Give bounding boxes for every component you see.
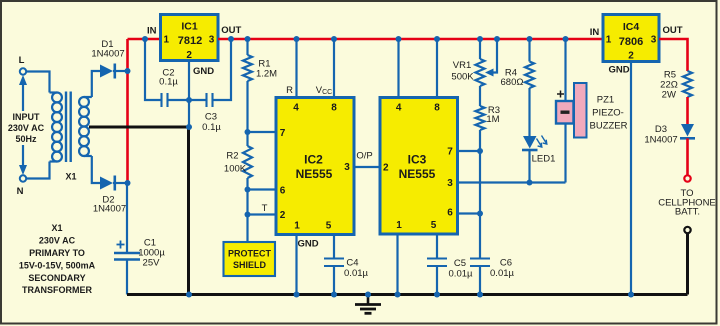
svg-text:IN: IN xyxy=(590,27,600,38)
svg-text:O/P: O/P xyxy=(356,151,372,162)
junction dot pin4 xyxy=(294,36,300,42)
junction dot VR1 on rail xyxy=(477,36,483,42)
svg-text:1.2M: 1.2M xyxy=(256,69,277,80)
wire (red): rectified +V vertical rail D1/D2 junction xyxy=(126,39,129,183)
capacitor C1 (electrolytic) xyxy=(114,253,140,295)
wire: rail to IC2 pin 4 xyxy=(295,39,297,98)
junction dot C5 on bus xyxy=(434,292,440,298)
svg-text:8: 8 xyxy=(331,103,337,114)
svg-text:X1: X1 xyxy=(65,172,76,182)
piezo buzzer PZ1 xyxy=(556,39,587,183)
capacitor C3 0.1u xyxy=(189,39,231,107)
wire (red): IC4 OUT to R5 xyxy=(659,39,688,71)
resistor R4 680ohm xyxy=(525,39,534,136)
junction dot IC4 GND on bus xyxy=(628,292,634,298)
svg-text:NE555: NE555 xyxy=(296,167,333,181)
junction dot C6 on bus xyxy=(477,292,483,298)
junction dot R1 on rail xyxy=(245,36,251,42)
svg-text:X1: X1 xyxy=(51,223,62,233)
capacitor C5 0.01u on IC3 pin5 xyxy=(427,234,447,295)
wire: IC1 pin2 GND down to centre-tap node xyxy=(188,61,190,128)
svg-text:500K: 500K xyxy=(451,72,474,83)
resistor R3 1M xyxy=(476,106,485,151)
label R4 680ohm xyxy=(501,68,524,89)
buzzer plus sign xyxy=(557,91,564,98)
svg-text:IC1: IC1 xyxy=(181,21,198,33)
junction dot at D2 cathode xyxy=(125,180,131,186)
junction dot wiper on rail xyxy=(494,36,500,42)
label VR1 500K xyxy=(451,60,474,83)
potentiometer VR1 500K xyxy=(476,39,485,106)
svg-text:25V: 25V xyxy=(143,258,161,269)
svg-text:7812: 7812 xyxy=(178,35,202,47)
wire: D2 junction down to C1 xyxy=(126,183,128,253)
svg-text:PIEZO-: PIEZO- xyxy=(592,108,624,119)
ground bus (black) xyxy=(127,293,688,296)
protect shield box xyxy=(224,242,276,276)
svg-text:PZ1: PZ1 xyxy=(597,95,614,106)
svg-text:7: 7 xyxy=(447,147,453,158)
black return wire: vertical to bus xyxy=(187,127,190,295)
label R5 22ohm 2W xyxy=(660,70,678,101)
wire (red): R5 to D3 xyxy=(686,97,689,124)
transformer X1 primary winding xyxy=(50,92,62,161)
svg-text:7806: 7806 xyxy=(619,36,643,48)
wire: IC3 pin7 to R3 bottom xyxy=(458,150,481,152)
svg-text:OUT: OUT xyxy=(662,25,682,36)
diode D2 xyxy=(100,176,128,191)
svg-text:PRIMARY TO: PRIMARY TO xyxy=(29,248,85,258)
label C5 0.01u xyxy=(449,258,473,280)
VR1 wiper arm from rail xyxy=(485,39,497,77)
svg-text:GND: GND xyxy=(297,239,318,250)
label D2 1N4007 xyxy=(93,195,126,215)
svg-text:2: 2 xyxy=(628,51,634,62)
svg-text:4: 4 xyxy=(396,103,402,114)
junction dot R1/R2/pin7 xyxy=(245,129,251,135)
output terminal - (black open circle) xyxy=(684,227,690,233)
svg-text:1N4007: 1N4007 xyxy=(644,135,677,146)
wire (black): return from terminal to bus xyxy=(686,234,689,295)
junction dot C2/C3/GND xyxy=(186,97,192,103)
svg-text:3: 3 xyxy=(651,34,657,45)
svg-text:IN: IN xyxy=(147,26,157,37)
svg-text:N: N xyxy=(17,186,24,197)
transformer X1 core xyxy=(66,92,71,163)
svg-text:D3: D3 xyxy=(655,124,667,135)
svg-text:C5: C5 xyxy=(454,258,466,269)
resistor R5 22ohm 2W xyxy=(683,71,692,97)
capacitor C4 0.01u on IC2 pin5 xyxy=(324,235,344,295)
svg-text:15V-0-15V, 500mA: 15V-0-15V, 500mA xyxy=(19,261,96,271)
svg-text:BATT.: BATT. xyxy=(675,207,700,218)
junction dot R4 on rail xyxy=(527,36,533,42)
svg-text:5: 5 xyxy=(431,220,437,231)
svg-text:1: 1 xyxy=(164,34,170,45)
svg-text:GND: GND xyxy=(193,66,214,77)
svg-text:SECONDARY: SECONDARY xyxy=(28,273,85,283)
svg-text:T: T xyxy=(262,203,268,214)
svg-text:GND: GND xyxy=(608,65,629,76)
svg-text:1N4007: 1N4007 xyxy=(93,204,126,215)
IC1 7812 regulator xyxy=(161,15,219,62)
junction dot C4 on bus xyxy=(331,292,337,298)
label D3 1N4007 xyxy=(644,124,677,146)
junction dot IC3 pin4 xyxy=(396,36,402,42)
diode D1 xyxy=(100,64,128,79)
svg-text:230V AC: 230V AC xyxy=(39,236,76,246)
svg-text:5: 5 xyxy=(326,221,332,232)
svg-text:2: 2 xyxy=(280,210,286,221)
svg-text:VR1: VR1 xyxy=(453,60,471,71)
terminal N (open circle) xyxy=(20,175,26,181)
svg-text:IC2: IC2 xyxy=(304,153,323,167)
diode D3 xyxy=(680,124,695,138)
svg-text:1: 1 xyxy=(396,220,402,231)
label C2 0.1u xyxy=(159,68,178,88)
svg-text:1M: 1M xyxy=(486,114,499,125)
label TO CELLPHONE BATT. xyxy=(658,188,716,218)
svg-text:INPUT: INPUT xyxy=(13,112,41,122)
C1 plus sign xyxy=(117,241,125,249)
wire: rail to IC3 pin 8 xyxy=(436,39,438,98)
wire: rail to IC3 pin 4 xyxy=(397,39,399,98)
svg-text:PROTECT: PROTECT xyxy=(228,249,272,259)
resistor R1 1.2M xyxy=(243,39,252,132)
svg-text:4: 4 xyxy=(293,103,299,114)
svg-text:3: 3 xyxy=(344,162,350,173)
junction dot at centre-tap corner xyxy=(186,124,192,130)
svg-text:0.01µ: 0.01µ xyxy=(490,268,514,279)
wire: to IC2 pin 7 xyxy=(248,131,277,133)
junction dot pin7 node xyxy=(477,148,483,154)
svg-text:IC4: IC4 xyxy=(623,21,640,33)
label R3 1M xyxy=(486,105,500,125)
junction dot black vertical on bus xyxy=(186,292,192,298)
resistor R2 100K xyxy=(243,132,252,244)
svg-text:3: 3 xyxy=(209,34,215,45)
wire: IC3 pin6 to node xyxy=(458,212,481,214)
svg-text:2W: 2W xyxy=(662,90,676,101)
IC3 NE555 xyxy=(380,98,458,235)
junction dot pin6 tap xyxy=(245,187,251,193)
junction dot C3 tap on rail xyxy=(228,36,234,42)
wire: L terminal lead to transformer primary top xyxy=(26,72,50,93)
svg-text:6: 6 xyxy=(447,208,453,219)
svg-text:SHIELD: SHIELD xyxy=(233,260,267,270)
wire: secondary bottom to D2 anode xyxy=(92,156,100,183)
wire: secondary top to D1 anode xyxy=(92,71,100,97)
transformer X1 secondary winding xyxy=(79,97,92,156)
LED1 xyxy=(522,136,538,183)
label C4 0.01u xyxy=(344,258,368,280)
terminal L (open circle) xyxy=(20,68,26,74)
junction dot LED on pin3 net xyxy=(527,180,533,186)
label C3 0.1u xyxy=(202,112,221,134)
svg-text:0.01µ: 0.01µ xyxy=(449,269,473,280)
svg-text:6: 6 xyxy=(280,186,286,197)
label PZ1 PIEZO-BUZZER xyxy=(590,95,628,132)
svg-text:100K: 100K xyxy=(224,164,247,175)
svg-text:2: 2 xyxy=(383,163,389,174)
svg-text:0.1µ: 0.1µ xyxy=(159,77,178,88)
label D1 1N4007 xyxy=(91,39,124,60)
svg-text:50Hz: 50Hz xyxy=(15,134,37,144)
IC4 7806 regulator xyxy=(603,15,659,62)
wire: IC4 pin2 GND to ground bus xyxy=(630,62,632,295)
svg-text:0.01µ: 0.01µ xyxy=(344,268,368,279)
svg-text:LED1: LED1 xyxy=(532,154,556,165)
IC2 NE555 xyxy=(276,98,354,235)
junction dot buzzer on rail xyxy=(563,36,569,42)
junction dot pin1 on bus xyxy=(294,292,300,298)
wire: IC3 pin1 to ground bus xyxy=(396,234,398,295)
junction dot at D1 cathode xyxy=(125,68,131,74)
input annotation arrow (up) xyxy=(19,75,27,111)
svg-text:8: 8 xyxy=(434,103,440,114)
svg-text:C6: C6 xyxy=(500,258,512,269)
wire (red): main +12V rail IC1 OUT to IC4 IN xyxy=(218,38,603,41)
label R1 1.2M xyxy=(256,59,277,80)
svg-text:1: 1 xyxy=(606,34,612,45)
label R2 100K xyxy=(224,151,247,175)
transformer caption xyxy=(19,223,96,295)
svg-text:IC3: IC3 xyxy=(408,153,427,167)
LED1 emission arrows xyxy=(537,136,547,148)
svg-text:0.1µ: 0.1µ xyxy=(202,122,221,133)
svg-text:680Ω: 680Ω xyxy=(501,77,524,88)
svg-text:3: 3 xyxy=(447,178,453,189)
wire: to IC2 pin 2 (trigger) xyxy=(248,213,277,215)
svg-text:C3: C3 xyxy=(205,112,217,123)
svg-text:1N4007: 1N4007 xyxy=(91,49,124,60)
junction dot ground on bus xyxy=(365,292,371,298)
svg-text:230V AC: 230V AC xyxy=(8,123,45,133)
svg-text:2: 2 xyxy=(186,50,192,61)
svg-text:NE555: NE555 xyxy=(399,167,436,181)
wire: IC2 pin3 output to IC3 pin2 xyxy=(354,166,380,168)
svg-text:7: 7 xyxy=(280,128,286,139)
junction dot IC3 pin8 xyxy=(434,36,440,42)
junction dot pin8 xyxy=(331,36,337,42)
wire: rail to IC2 pin 8 xyxy=(333,39,335,98)
capacitor C6 0.01u xyxy=(470,214,490,295)
black return wire: centre-tap horizontal xyxy=(89,126,190,129)
svg-text:R2: R2 xyxy=(226,151,238,162)
junction dot pin6 node xyxy=(477,211,483,217)
wire: N terminal lead to transformer primary bottom xyxy=(26,162,50,179)
svg-text:R: R xyxy=(286,85,293,96)
wire: IC2 pin1 to ground bus xyxy=(295,235,297,295)
wire: to IC2 pin 6 xyxy=(248,188,277,190)
label INPUT 230V AC 50Hz xyxy=(8,112,45,144)
wire (red): D3 to output terminal xyxy=(686,138,689,175)
ground symbol xyxy=(355,295,381,314)
wire: IC3 pin3 output net xyxy=(458,181,566,183)
label C1 1000u 25V xyxy=(138,238,165,269)
svg-text:C4: C4 xyxy=(346,258,358,269)
svg-text:L: L xyxy=(19,55,25,66)
output terminal + (red open circle) xyxy=(684,175,690,181)
svg-text:OUT: OUT xyxy=(221,25,241,36)
capacitor C2 0.1u xyxy=(145,39,189,107)
input annotation arrow (down) xyxy=(19,145,27,175)
label C6 0.01u xyxy=(490,258,514,280)
junction dot pin2 tap xyxy=(245,212,251,218)
junction dot IC3 pin1 on bus xyxy=(395,292,401,298)
junction dot C2 tap on rail xyxy=(142,36,148,42)
wire (red): to IC1 IN xyxy=(128,38,161,41)
svg-text:1: 1 xyxy=(294,221,300,232)
wire: pin7 node down to pin6 node xyxy=(479,151,481,214)
svg-text:BUZZER: BUZZER xyxy=(590,121,628,132)
svg-text:TRANSFORMER: TRANSFORMER xyxy=(22,285,92,295)
